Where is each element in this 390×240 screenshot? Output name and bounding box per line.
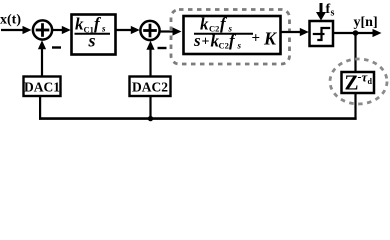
wire bus up to DAC2	[149, 96, 151, 120]
wire delay block down to feedback bus	[354, 93, 356, 120]
junction at DAC2 on bus	[148, 116, 153, 121]
minus sign at S1 feedback input	[52, 46, 61, 48]
svg-text:Z: Z	[345, 71, 359, 95]
quantizer Q box	[310, 21, 334, 46]
wire junction down to delay block	[354, 33, 356, 72]
summer S1	[33, 20, 52, 39]
svg-text:s: s	[237, 41, 242, 51]
svg-text:d: d	[368, 77, 373, 86]
svg-text:K: K	[263, 29, 278, 49]
wire input to summer S1	[1, 26, 32, 34]
clock label f_s	[326, 2, 335, 19]
wire DAC2 up to S2	[146, 41, 154, 77]
wire DAC1 up to S1	[38, 40, 46, 76]
junction on output wire	[353, 30, 359, 36]
svg-text:DAC1: DAC1	[24, 80, 60, 95]
minus sign at S2 feedback input	[158, 47, 167, 49]
DAC1 block	[24, 77, 61, 97]
dashed ellipse around delay	[330, 59, 387, 104]
block B1 k_C1 f_s / s	[72, 14, 116, 55]
wire S2 to block B2	[160, 27, 182, 35]
svg-text:s: s	[331, 8, 335, 19]
feedback bus wire	[39, 117, 357, 120]
svg-text:+: +	[202, 35, 210, 50]
summer S2	[140, 21, 159, 40]
wire S1 to block B1	[52, 26, 70, 34]
output wire Q to y[n]	[333, 29, 382, 37]
wire B2 to quantizer Q	[281, 28, 309, 36]
sampling clock arrow into Q	[316, 3, 326, 21]
delay block Z^-tau_d	[342, 70, 375, 95]
svg-text:C2: C2	[219, 41, 229, 51]
dashed loop-filter box	[171, 10, 290, 65]
svg-text:s: s	[101, 24, 106, 34]
block B2 k_C2 f_s/(s+k_C2 f_s) + K	[184, 14, 281, 54]
svg-text:s: s	[88, 31, 96, 51]
svg-text:+: +	[252, 31, 261, 47]
wire B1 to summer S2	[116, 26, 140, 34]
svg-text:x(t): x(t)	[0, 13, 21, 28]
wire bus up to DAC1	[39, 96, 41, 120]
svg-text:s: s	[193, 31, 201, 50]
svg-text:k: k	[200, 15, 209, 34]
DAC2 block	[130, 77, 171, 97]
svg-text:DAC2: DAC2	[132, 80, 168, 95]
svg-text:y[n]: y[n]	[354, 15, 378, 30]
